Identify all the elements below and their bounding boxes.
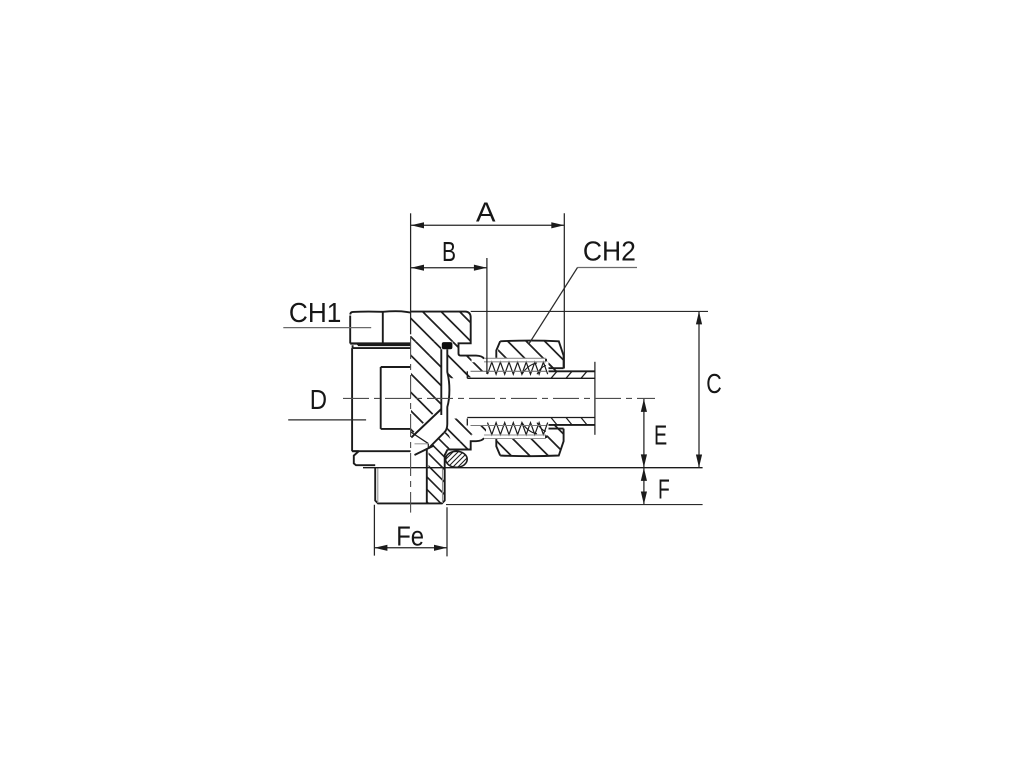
svg-text:C: C — [706, 368, 722, 399]
A dimension line — [411, 224, 564, 226]
stud sectioned wall — [427, 468, 445, 504]
body section left column — [411, 356, 441, 435]
body lower wedge to flange — [429, 431, 453, 468]
male end face / ring faces — [545, 359, 547, 438]
bore mouth wall — [427, 444, 429, 449]
flange — [352, 451, 375, 465]
A extension lines — [410, 213, 412, 334]
svg-text:Fe: Fe — [396, 521, 424, 552]
left body rectangle — [352, 348, 411, 451]
passage extra line — [415, 446, 435, 456]
stud outline — [375, 468, 445, 504]
cutting ring upper — [546, 363, 562, 372]
black seal — [442, 342, 453, 349]
nut CH2 outline upper — [496, 341, 563, 369]
hex nut CH1 — [350, 311, 410, 314]
B extension right — [486, 258, 488, 374]
svg-text:F: F — [658, 474, 670, 505]
E dimension line — [643, 399, 645, 467]
tube outer lines — [546, 371, 595, 425]
label leader lines — [283, 268, 637, 420]
body bottom edge mirror and groove — [448, 438, 485, 450]
body block lower right — [447, 441, 470, 449]
long face surface line — [363, 467, 703, 469]
stud bore wall sectioned — [426, 448, 428, 502]
cutting ring claw curves upper — [522, 363, 546, 374]
nut CH2 lower half — [496, 429, 563, 457]
svg-text:B: B — [442, 236, 456, 267]
passage upper line — [411, 409, 441, 438]
Fe extension lines — [374, 505, 447, 557]
cone inner lines — [488, 363, 511, 435]
thread crest/root grey lines — [471, 358, 547, 438]
passage lower line — [428, 433, 444, 449]
funnel slot left — [440, 349, 442, 415]
o-ring pocket — [445, 450, 448, 468]
thread zigzag upper — [488, 362, 548, 374]
C dimension line — [698, 312, 700, 468]
svg-text:D: D — [310, 384, 327, 415]
cutting ring lower — [546, 426, 562, 435]
tube inner lines — [467, 378, 594, 417]
body section center column — [447, 349, 471, 377]
thread zigzag lower — [488, 423, 548, 435]
washer under hex — [353, 344, 411, 349]
svg-text:CH1: CH1 — [289, 297, 342, 328]
o-ring — [446, 451, 468, 467]
arrowheads — [374, 222, 702, 551]
stud bottom extension to F — [446, 504, 703, 506]
tube wall hatch ticks — [551, 371, 587, 425]
body section right of seal — [453, 342, 459, 356]
bore mouth edge — [415, 443, 429, 445]
cutting ring claw curves lower — [522, 423, 546, 434]
body section upper block — [411, 312, 471, 344]
tube end face in cone — [466, 371, 468, 425]
nut CH2 outline lower — [496, 429, 563, 457]
horizontal centerline — [343, 397, 655, 399]
B dimension line — [411, 267, 487, 269]
body section left of seal — [411, 342, 441, 356]
Fe dimension line — [375, 547, 447, 549]
vertical centerline — [410, 336, 412, 513]
body shoulder below tube lower — [447, 419, 467, 426]
left bore rectangle — [381, 367, 411, 429]
svg-text:A: A — [476, 196, 496, 227]
top extension line to C — [471, 310, 708, 312]
body male thread band lower — [472, 426, 547, 435]
funnel slot right — [444, 349, 450, 433]
chamber far contour — [411, 432, 429, 444]
body shoulder above tube upper — [447, 371, 467, 378]
F dimension line — [643, 468, 645, 505]
thin thread lines on stud (external view) — [378, 468, 443, 503]
nut CH2 upper half — [496, 341, 563, 369]
tube end break line — [594, 362, 596, 435]
body top edge and right step and groove — [411, 312, 484, 359]
svg-text:CH2: CH2 — [583, 236, 636, 267]
body male thread band upper — [472, 362, 547, 371]
white backing thread zones — [486, 361, 549, 374]
body section center column mirror — [447, 420, 471, 448]
svg-text:E: E — [654, 420, 667, 451]
